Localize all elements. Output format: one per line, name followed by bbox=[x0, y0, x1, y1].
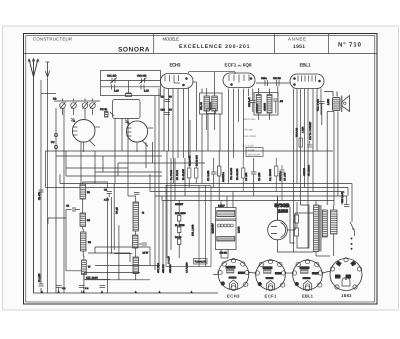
wire ECH3 pin drops bbox=[155, 89, 189, 188]
wire bus lines bbox=[41, 94, 352, 201]
svg-text:1883: 1883 bbox=[341, 293, 352, 298]
header text ANNEE 1951 bbox=[288, 36, 306, 50]
label EBL1 bbox=[300, 63, 311, 69]
svg-text:M: M bbox=[142, 212, 144, 215]
svg-text:#3. 38.00: #3. 38.00 bbox=[176, 169, 179, 180]
svg-text:C7. 0.100: C7. 0.100 bbox=[207, 170, 210, 181]
svg-text:P.2. 200/00: P.2. 200/00 bbox=[269, 168, 272, 181]
svg-text:2x350: 2x350 bbox=[238, 226, 241, 233]
svg-text:1883: 1883 bbox=[278, 209, 289, 214]
svg-text:EBL1: EBL1 bbox=[302, 294, 314, 299]
svg-text:CH: CH bbox=[161, 96, 165, 99]
svg-text:400000: 400000 bbox=[264, 102, 267, 111]
tuning coil L1 big circle bbox=[71, 118, 100, 152]
label base ECH3 bbox=[227, 294, 240, 299]
coil B4 bbox=[66, 218, 110, 293]
coil B1 bbox=[80, 182, 112, 293]
svg-text:BL 45/90: BL 45/90 bbox=[175, 224, 185, 227]
svg-text:MA 40.000: MA 40.000 bbox=[236, 168, 239, 180]
svg-text:400000: 400000 bbox=[303, 167, 306, 176]
PU terminals bbox=[51, 133, 58, 148]
capacitor C16 1-47 bbox=[248, 89, 256, 113]
wire EBL1 cathode network bbox=[290, 196, 314, 252]
wire left verticals bbox=[41, 78, 64, 293]
svg-text:270. 1,000: 270. 1,000 bbox=[192, 224, 195, 236]
svg-text:EXCELLENCE 200-201: EXCELLENCE 200-201 bbox=[179, 44, 250, 50]
capacitor C1 470 bbox=[38, 190, 44, 286]
svg-text:ECF1: ECF1 bbox=[265, 294, 278, 299]
resistor column R1 group bbox=[170, 155, 199, 188]
capacitor C16a coupling bbox=[256, 77, 290, 86]
svg-text:407.7010: 407.7010 bbox=[157, 262, 160, 273]
ground arrow bbox=[45, 62, 49, 77]
wire bottom bus bbox=[34, 290, 219, 293]
capacitor C17 10.00 bbox=[84, 273, 150, 280]
output transformer TR2 bbox=[314, 201, 331, 257]
rectifier tube 5Y3GB 1883 bbox=[268, 196, 313, 252]
tube base EBL1 bbox=[292, 259, 323, 291]
trimmer CV1 460 bbox=[101, 75, 161, 84]
node B2B stub bbox=[126, 81, 132, 97]
svg-text:C8 .250: C8 .250 bbox=[258, 172, 261, 181]
coil B2 bbox=[80, 199, 91, 227]
capacitor C8 250 bbox=[251, 158, 261, 196]
wire ECH3 to ECF1 top link bbox=[189, 72, 236, 151]
wire EBL1 pin drops bbox=[294, 89, 322, 249]
svg-text:C14 26: C14 26 bbox=[273, 77, 281, 80]
switch S2 bbox=[350, 222, 355, 250]
svg-text:C1 470: C1 470 bbox=[38, 192, 41, 200]
capacitor 4uF b bbox=[79, 286, 89, 291]
capacitor C10 50 bbox=[161, 109, 173, 115]
svg-text:1.05: 1.05 bbox=[144, 90, 149, 93]
resistor 122 1200 bbox=[175, 200, 195, 258]
svg-text:C17. 10.00: C17. 10.00 bbox=[86, 277, 98, 280]
svg-text:R.C. 0.200: R.C. 0.200 bbox=[243, 145, 255, 148]
label base ECF1 bbox=[265, 294, 278, 299]
label ECF1 ou 6Q8 bbox=[225, 63, 252, 68]
tube ECF1 bbox=[223, 73, 255, 88]
capacitor C17 .05 bbox=[273, 99, 283, 113]
wire mid verticals under ECH3 bbox=[174, 114, 221, 184]
header table lines bbox=[24, 34, 378, 54]
svg-text:EBL1: EBL1 bbox=[300, 63, 311, 69]
svg-text:PU: PU bbox=[51, 141, 55, 144]
IF transformer T2 bbox=[254, 88, 278, 120]
svg-text:C 1.100: C 1.100 bbox=[38, 273, 41, 282]
power transformer TR1 bbox=[212, 192, 241, 259]
wire heater links between bases bbox=[213, 271, 331, 275]
svg-text:12V DL CARNET: 12V DL CARNET bbox=[309, 121, 312, 140]
svg-text:C17. 3 MM: C17. 3 MM bbox=[316, 99, 319, 111]
svg-text:CV2 440: CV2 440 bbox=[137, 75, 147, 78]
svg-text:TONALITE: TONALITE bbox=[195, 261, 207, 264]
svg-text:AN 20N06: AN 20N06 bbox=[308, 164, 311, 176]
tube base ECH3 bbox=[218, 258, 249, 290]
label base EBL1 bbox=[302, 294, 314, 299]
wire bus verticals bbox=[46, 119, 353, 223]
svg-text:122 .1200: 122 .1200 bbox=[175, 212, 186, 215]
svg-text:E70 106: E70 106 bbox=[244, 129, 254, 132]
capacitor C14 26 bbox=[273, 77, 281, 97]
svg-text:SONORA: SONORA bbox=[118, 46, 150, 53]
band switch contacts S1 bbox=[53, 98, 100, 120]
resistor column R4 group right bbox=[296, 121, 313, 176]
svg-text:AMAZAA: AMAZAA bbox=[222, 172, 225, 182]
label ECH3 bbox=[170, 63, 181, 69]
resistor column R3 group bbox=[269, 158, 287, 201]
header text CONSTRUCTEUR SONORA bbox=[33, 36, 150, 53]
svg-text:BL 40.105: BL 40.105 bbox=[182, 169, 185, 180]
box TONALITE bbox=[157, 256, 207, 273]
antenna bbox=[28, 59, 39, 294]
tube base 1883 bbox=[330, 258, 362, 291]
svg-text:N° 710: N° 710 bbox=[338, 41, 362, 48]
box tone network bbox=[166, 186, 211, 267]
svg-text:1951: 1951 bbox=[293, 44, 305, 50]
svg-text:C9 .100: C9 .100 bbox=[284, 172, 287, 181]
svg-text:ECH3: ECH3 bbox=[227, 294, 240, 299]
wire right verticals to output stage bbox=[327, 112, 338, 206]
svg-text:CV. 1a: CV. 1a bbox=[100, 108, 108, 111]
svg-text:WAAAM: WAAAM bbox=[296, 128, 299, 137]
svg-text:4.8 A1100: 4.8 A1100 bbox=[186, 262, 189, 273]
svg-text:MODELE: MODELE bbox=[163, 36, 180, 41]
capacitor 1.10 bbox=[101, 85, 161, 93]
capacitor 1.05 bbox=[141, 85, 149, 93]
tube EBL1 bbox=[290, 74, 324, 89]
svg-text:ANNEE: ANNEE bbox=[288, 36, 306, 41]
svg-text:4.70: 4.70 bbox=[104, 199, 109, 202]
svg-text:ECF1 ou 6Q8: ECF1 ou 6Q8 bbox=[225, 63, 252, 68]
svg-text:C4 µB: C4 µB bbox=[116, 207, 119, 214]
svg-text:C18 16.00: C18 16.00 bbox=[341, 191, 344, 203]
svg-text:1.000: 1.000 bbox=[327, 98, 330, 105]
label base 1883 bbox=[341, 293, 352, 298]
svg-text:AVEC 40%: AVEC 40% bbox=[244, 118, 257, 121]
svg-text:455.000: 455.000 bbox=[162, 264, 165, 273]
svg-text:7BL 40.600: 7BL 40.600 bbox=[230, 167, 233, 180]
svg-text:C 0.5/9: C 0.5/9 bbox=[168, 256, 171, 264]
capacitor C17 3MM bbox=[316, 99, 324, 125]
svg-text:C8 .250: C8 .250 bbox=[245, 172, 248, 181]
svg-text:ECH3: ECH3 bbox=[170, 63, 181, 69]
svg-text:CONSTRUCTEUR: CONSTRUCTEUR bbox=[33, 36, 72, 41]
capacitor CH 50 bbox=[161, 96, 173, 102]
svg-text:CAS 21000: CAS 21000 bbox=[244, 135, 257, 138]
trimmer CV 1a bbox=[100, 108, 114, 117]
svg-text:12 W: 12 W bbox=[143, 252, 149, 255]
capacitor C2 bbox=[66, 205, 80, 213]
resistor column R2 group bbox=[230, 158, 248, 192]
capacitor 4uF c bbox=[100, 286, 106, 288]
svg-text:110/245V: 110/245V bbox=[212, 223, 215, 233]
speaker HP bbox=[324, 92, 350, 113]
svg-text:CV1 460: CV1 460 bbox=[107, 75, 117, 78]
oscillator box bbox=[101, 71, 161, 119]
svg-text:1.10: 1.10 bbox=[114, 90, 119, 93]
resistor filter block texts bbox=[243, 118, 264, 157]
IF transformer T1 bbox=[200, 72, 223, 130]
svg-text:435.000: 435.000 bbox=[169, 264, 172, 273]
svg-text:C16a: C16a bbox=[261, 77, 267, 80]
svg-text:F.B: F.B bbox=[53, 98, 57, 101]
tube ECH3 bbox=[161, 74, 194, 89]
wire switch mesh lower left bbox=[48, 210, 160, 266]
capacitor 4uF a bbox=[56, 286, 66, 291]
coil B3 bbox=[81, 227, 92, 252]
capacitor C7 0.100 bbox=[207, 151, 225, 201]
svg-text:C10: C10 bbox=[161, 109, 166, 112]
coil bank W2 bbox=[114, 155, 149, 281]
wire mid verticals to power section bbox=[155, 151, 185, 270]
capacitor C18 16.00 bbox=[341, 191, 350, 206]
schematic outer frame bbox=[24, 34, 378, 305]
wire left mesh verticals bbox=[66, 142, 153, 187]
wire ECF1 pin drops bbox=[229, 89, 249, 184]
svg-text:12527: 12527 bbox=[218, 205, 225, 208]
tube base ECF1 bbox=[255, 259, 286, 291]
header text No 710 bbox=[338, 41, 362, 48]
capacitor C4 4.70 bbox=[104, 184, 114, 251]
svg-text:D6.10: D6.10 bbox=[175, 236, 182, 239]
svg-text:400000: 400000 bbox=[256, 103, 259, 112]
tuning coil L2 big circle bbox=[125, 120, 153, 153]
header text MODELE EXCELLENCE 200-201 bbox=[163, 36, 250, 50]
svg-text:A 83A: A 83A bbox=[302, 126, 305, 133]
choke winding L5 bbox=[331, 205, 338, 256]
svg-text:A 0890: A 0890 bbox=[248, 149, 256, 152]
svg-text:3R2 001/08: 3R2 001/08 bbox=[248, 154, 261, 157]
svg-text:7a. 70.60: 7a. 70.60 bbox=[170, 169, 173, 180]
svg-text:C7a 40: C7a 40 bbox=[200, 102, 203, 110]
trimmer CV2 440 bbox=[137, 75, 147, 84]
svg-text:C16 1-47: C16 1-47 bbox=[248, 96, 251, 107]
